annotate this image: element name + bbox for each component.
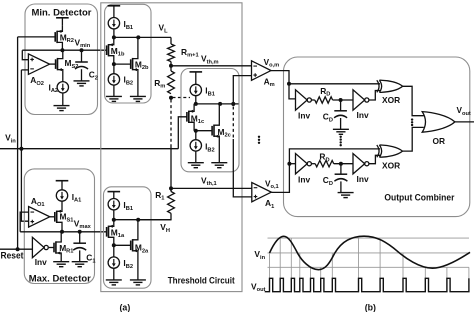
current source IB2 (cell c) (195, 131, 197, 140)
xor gate row m (377, 80, 379, 92)
capacitor CD row m (340, 100, 342, 111)
wire inverter to MR1 gate (49, 247, 54, 249)
transistor MS2 (56, 50, 63, 81)
wire row-m down to Inv1 (289, 84, 296, 99)
svg-text:Inv: Inv (357, 110, 369, 120)
dashed resistor-chain continuation (170, 100, 172, 147)
svg-text:Vth,m: Vth,m (201, 54, 219, 66)
waveform threshold line top (268, 237, 470, 239)
output combiner box (284, 57, 470, 217)
svg-text:R1: R1 (155, 190, 164, 202)
wire reset to inverter (0, 248, 32, 250)
transistor M1c (187, 104, 194, 131)
inverter Inv2 row m (353, 90, 365, 110)
svg-text:Inv: Inv (298, 174, 310, 184)
wire Vth,m to comparator Am (171, 65, 252, 67)
resistor RD row 1 (315, 161, 334, 167)
wire Am + input riser (233, 76, 251, 105)
svg-text:IB2: IB2 (124, 75, 134, 87)
svg-text:VH: VH (160, 222, 170, 234)
resistor R1 (170, 188, 172, 191)
wire OR output Vout (455, 121, 474, 123)
ground (cell c left) (188, 163, 204, 168)
min detector box (25, 4, 98, 115)
transistor M1a (107, 220, 114, 246)
node row 1 RC (334, 163, 353, 165)
waveform threshold line mid (268, 252, 471, 254)
wire Vo,m into combiner (271, 71, 289, 84)
svg-text:Vout: Vout (457, 106, 471, 117)
wire riser to A1 + input (233, 139, 252, 197)
ground (CD row m) (333, 129, 349, 134)
wire VL corner to Rm+1 (170, 37, 172, 44)
ground (cell b right) (130, 96, 146, 101)
svg-text:CD: CD (323, 112, 333, 124)
bias cell box b (105, 4, 151, 103)
svg-text:OR: OR (433, 136, 446, 146)
wire Vmax rail (20, 231, 106, 233)
wire cell c output node (196, 103, 239, 105)
capacitor CD row 1 (340, 164, 342, 175)
current source IB1 (cell b) (108, 18, 119, 29)
waveform threshold line bottom (268, 266, 469, 268)
svg-text:Output Combiner: Output Combiner (384, 191, 454, 202)
wire Inv1 to RD row 1 (311, 163, 315, 165)
svg-text:Inv: Inv (357, 174, 369, 184)
transistor MR1 (54, 232, 61, 262)
svg-text:VL: VL (159, 23, 169, 35)
svg-text:IB1: IB1 (123, 200, 133, 212)
wire IA2 to ground (62, 93, 64, 106)
wire Vin riser (to AO2 - and AO1 +) (21, 70, 28, 221)
current source IB1 (cell a) (108, 199, 119, 210)
ellipsis between OR inputs (411, 118, 413, 120)
resistor RD row m (315, 97, 333, 103)
svg-text:Vin: Vin (5, 133, 16, 145)
svg-text:IB2: IB2 (205, 142, 215, 154)
wire AO1 - feedback to Vmax (20, 212, 28, 232)
wire VH node rail (cell a) (114, 219, 171, 221)
wire XOR 1 output to OR (403, 127, 424, 151)
capacitor C1 (79, 232, 81, 243)
wire row-m to XOR top input (289, 83, 380, 85)
ground (CD row 1) (338, 193, 354, 198)
current source IA2 (57, 82, 68, 93)
svg-text:Vin: Vin (254, 249, 265, 261)
wire R1 to VH rail (138, 213, 171, 219)
vdd bar (max detector) (56, 180, 69, 182)
svg-text:AO1: AO1 (31, 196, 45, 208)
inverter Inv1 row 1 (296, 154, 308, 174)
transistor M2a (131, 220, 138, 280)
svg-text:Reset: Reset (1, 250, 24, 260)
current source IB1 (cell c) (190, 84, 201, 95)
svg-text:Vmax: Vmax (74, 218, 92, 230)
ground (cell b left) (106, 96, 122, 101)
wire reset riser (to MR2 gate) (17, 37, 19, 249)
wire Vmin rail (22, 49, 106, 51)
svg-text:IA2: IA2 (49, 82, 59, 94)
node Rm bottom tap (169, 96, 173, 100)
inverter Inv1 row m (296, 90, 308, 110)
inverter Inv (reset) (32, 237, 44, 257)
wire M1a source node (114, 244, 131, 246)
wire AO1 output to MS1 gate (50, 216, 55, 218)
capacitor C2 (81, 50, 83, 62)
wire Inv2 to XOR row m (369, 91, 381, 101)
dashed tap wire to cell c (173, 97, 191, 99)
transistor M1b (107, 37, 114, 64)
wire IB2 to ground (cell b) (113, 85, 115, 96)
svg-text:Vo,1: Vo,1 (265, 179, 279, 190)
or gate (422, 112, 455, 133)
comparator A1 (252, 183, 271, 202)
node row m RC (333, 99, 353, 101)
svg-text:Inv: Inv (35, 257, 47, 267)
transistor MR2 (55, 26, 62, 51)
ground (MR1) (53, 262, 69, 267)
transistor MS1 (55, 210, 62, 232)
svg-text:XOR: XOR (382, 95, 400, 105)
wire row-1 to Inv1 (289, 163, 295, 165)
xor gate row 1 (377, 145, 379, 157)
wire Vo,1 into combiner (271, 164, 289, 193)
svg-text:M2a: M2a (135, 243, 149, 255)
ground (cell a left) (106, 280, 122, 285)
waveform Vout pulses (265, 278, 469, 291)
wire IB1 to node VH (cell a) (113, 210, 115, 220)
svg-text:Max. Detector: Max. Detector (29, 272, 91, 283)
wire IB2 to ground (cell a) (113, 268, 115, 280)
bias cell box a (104, 187, 152, 288)
wire Inv2 to XOR row 1 (369, 155, 381, 163)
wire AO2 - input to Vin riser (21, 69, 28, 71)
op-amp AO1 (29, 207, 50, 228)
wire MR2 gate to reset riser (18, 36, 56, 38)
ground (C2) (74, 81, 90, 86)
current source IB2 (cell a) (113, 245, 115, 257)
ellipsis between comparators (258, 136, 260, 138)
svg-text:C2: C2 (89, 70, 98, 82)
svg-text:MS1: MS1 (60, 212, 74, 224)
threshold circuit outer box (101, 3, 242, 292)
svg-text:(a): (a) (120, 302, 131, 312)
transistor M2c (212, 104, 219, 163)
wire Vth,1 to comparator A1 (171, 187, 252, 189)
svg-text:Vth,1: Vth,1 (201, 175, 217, 187)
svg-text:Threshold Circuit: Threshold Circuit (168, 274, 235, 285)
ellipsis between combiner rows (340, 136, 342, 138)
wire AO2 output to MS2 gate (50, 63, 56, 65)
wire IB1 to node VL (cell b) (113, 29, 115, 38)
wire row-1 riser to XOR branch (289, 149, 380, 164)
current source IA1 (56, 190, 67, 201)
bias cell box c (181, 69, 239, 172)
resistor Rm (168, 71, 175, 94)
svg-text:XOR: XOR (382, 161, 400, 171)
wire XOR m output to OR (403, 86, 424, 115)
svg-text:CD: CD (323, 175, 333, 187)
wire M1c source node (194, 130, 212, 132)
svg-text:IA1: IA1 (72, 192, 82, 204)
svg-text:Vo,m: Vo,m (264, 58, 280, 69)
wire IB1 to node (cell c) (195, 96, 197, 104)
svg-text:Vmin: Vmin (75, 37, 91, 49)
current source IB2 (cell b) (113, 64, 115, 74)
node Vth,m (169, 64, 173, 68)
vdd bar (cell c) (190, 71, 203, 73)
svg-text:Am: Am (264, 76, 275, 88)
vdd bar (cell a) (108, 191, 121, 193)
vdd bar (min detector) (56, 17, 69, 19)
svg-text:IB1: IB1 (205, 86, 215, 98)
wire M1b source node (114, 63, 131, 65)
node Vth,1 (169, 186, 173, 190)
svg-text:AO2: AO2 (30, 75, 44, 87)
resistor Rm+1 (168, 44, 175, 62)
wire Vin horizontal (0, 148, 178, 150)
wire Inv1 to RD row m (311, 99, 314, 101)
svg-text:IB2: IB2 (123, 258, 133, 270)
op-amp AO2 (28, 54, 49, 75)
svg-text:IB1: IB1 (124, 19, 134, 31)
ground (cell c right) (211, 163, 227, 168)
svg-text:Rm+1: Rm+1 (181, 47, 199, 59)
max detector box (24, 169, 94, 284)
svg-text:Inv: Inv (298, 111, 310, 121)
wire chain to Vth,1 (170, 146, 172, 192)
svg-text:M1c: M1c (191, 113, 204, 125)
svg-text:A1: A1 (265, 198, 274, 210)
dashed riser continuation (232, 107, 234, 140)
svg-text:(b): (b) (365, 302, 376, 312)
wire VL node rail (cell b) (114, 36, 171, 38)
waveform Vin curve (270, 236, 471, 270)
waveform crossing grid lines (269, 253, 271, 278)
vdd bar (cell b) (108, 5, 121, 7)
ground (C1) (72, 262, 88, 267)
ground (min detector) (54, 106, 70, 111)
node Vmin feedback hook to A_O2 + (22, 50, 28, 60)
inverter Inv2 row 1 (353, 154, 365, 174)
ground (cell a right) (130, 280, 146, 285)
svg-text:Rm: Rm (154, 78, 165, 90)
svg-text:Vout: Vout (251, 281, 266, 293)
comparator Am (252, 61, 272, 81)
svg-text:RD: RD (320, 86, 330, 98)
transistor M2b (131, 37, 138, 96)
wire IB2 to ground (cell c) (195, 151, 197, 163)
wire IA1 to MS1 (61, 201, 63, 211)
svg-text:Min. Detector: Min. Detector (32, 7, 92, 18)
wire M1c gate to Vin (178, 117, 187, 149)
